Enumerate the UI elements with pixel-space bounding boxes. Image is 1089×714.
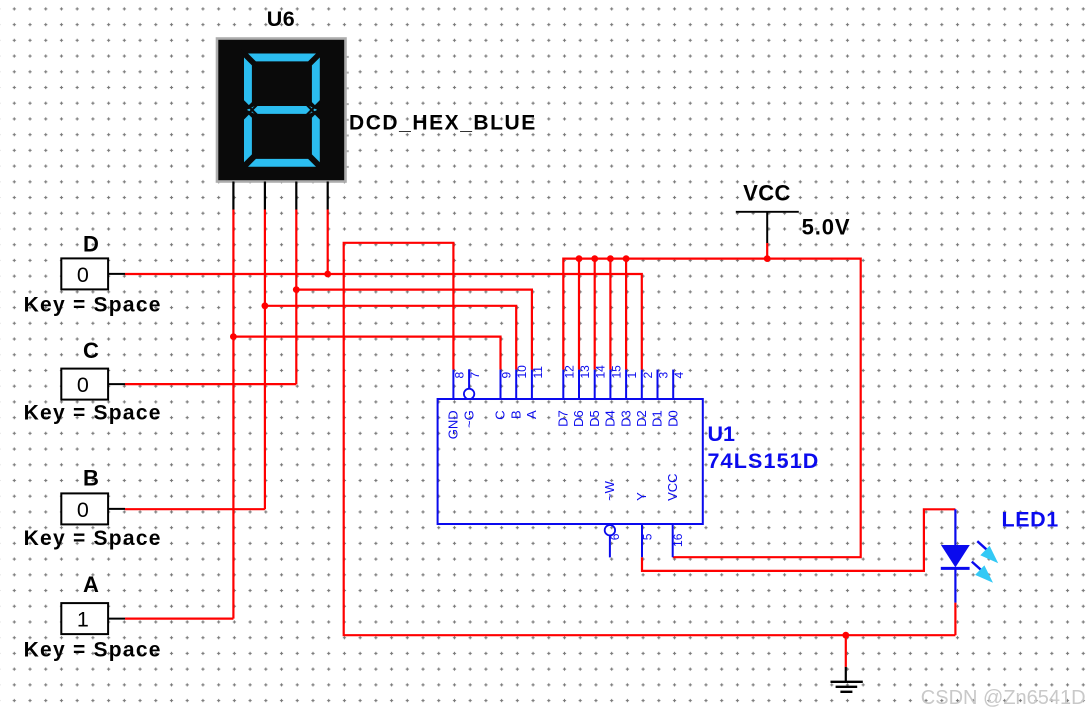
svg-text:A: A	[524, 410, 539, 419]
svg-text:Key = Space: Key = Space	[24, 639, 162, 662]
svg-text:D6: D6	[571, 410, 586, 427]
svg-text:Key = Space: Key = Space	[24, 402, 162, 425]
svg-text:LED1: LED1	[1002, 508, 1059, 532]
svg-text:3: 3	[657, 372, 671, 379]
svg-text:9: 9	[500, 372, 514, 379]
svg-text:U1: U1	[708, 422, 736, 446]
svg-text:C: C	[83, 338, 99, 363]
svg-text:74LS151D: 74LS151D	[708, 449, 820, 473]
svg-text:C: C	[493, 410, 508, 419]
svg-text:D0: D0	[665, 410, 680, 427]
svg-text:2: 2	[641, 372, 655, 379]
svg-text:D1: D1	[650, 410, 665, 427]
svg-text:GND: GND	[446, 410, 461, 439]
svg-text:D7: D7	[556, 410, 571, 427]
svg-text:5.0V: 5.0V	[802, 215, 851, 240]
svg-text:D: D	[83, 231, 99, 256]
svg-text:5: 5	[640, 533, 654, 540]
svg-text:15: 15	[609, 365, 623, 379]
svg-text:VCC: VCC	[743, 181, 791, 206]
svg-text:0: 0	[77, 373, 89, 397]
svg-text:6: 6	[608, 533, 622, 540]
svg-text:1: 1	[625, 372, 639, 379]
svg-text:B: B	[83, 466, 99, 491]
svg-text:DCD_HEX_BLUE: DCD_HEX_BLUE	[349, 112, 537, 135]
svg-text:B: B	[508, 410, 523, 419]
svg-text:D5: D5	[587, 410, 602, 427]
svg-text:D4: D4	[603, 410, 618, 427]
svg-text:Key = Space: Key = Space	[24, 293, 162, 316]
svg-text:A: A	[83, 572, 99, 597]
svg-text:VCC: VCC	[665, 473, 680, 500]
svg-text:14: 14	[594, 365, 608, 379]
svg-text:12: 12	[562, 365, 576, 379]
svg-text:7: 7	[468, 372, 482, 379]
svg-text:8: 8	[452, 372, 466, 379]
svg-text:~G: ~G	[461, 410, 476, 428]
svg-text:D3: D3	[618, 410, 633, 427]
svg-text:Key = Space: Key = Space	[24, 527, 162, 550]
svg-text:D2: D2	[634, 410, 649, 427]
svg-text:4: 4	[672, 372, 686, 379]
svg-text:1: 1	[77, 608, 89, 632]
svg-text:~W: ~W	[602, 480, 617, 501]
svg-text:10: 10	[515, 365, 529, 379]
svg-text:0: 0	[77, 498, 89, 522]
svg-text:16: 16	[671, 533, 685, 547]
svg-text:11: 11	[531, 366, 545, 379]
svg-text:U6: U6	[267, 7, 295, 31]
svg-text:CSDN @Zn6541D: CSDN @Zn6541D	[921, 687, 1086, 709]
svg-text:0: 0	[77, 263, 89, 287]
svg-text:13: 13	[578, 365, 592, 379]
svg-text:Y: Y	[634, 492, 649, 501]
